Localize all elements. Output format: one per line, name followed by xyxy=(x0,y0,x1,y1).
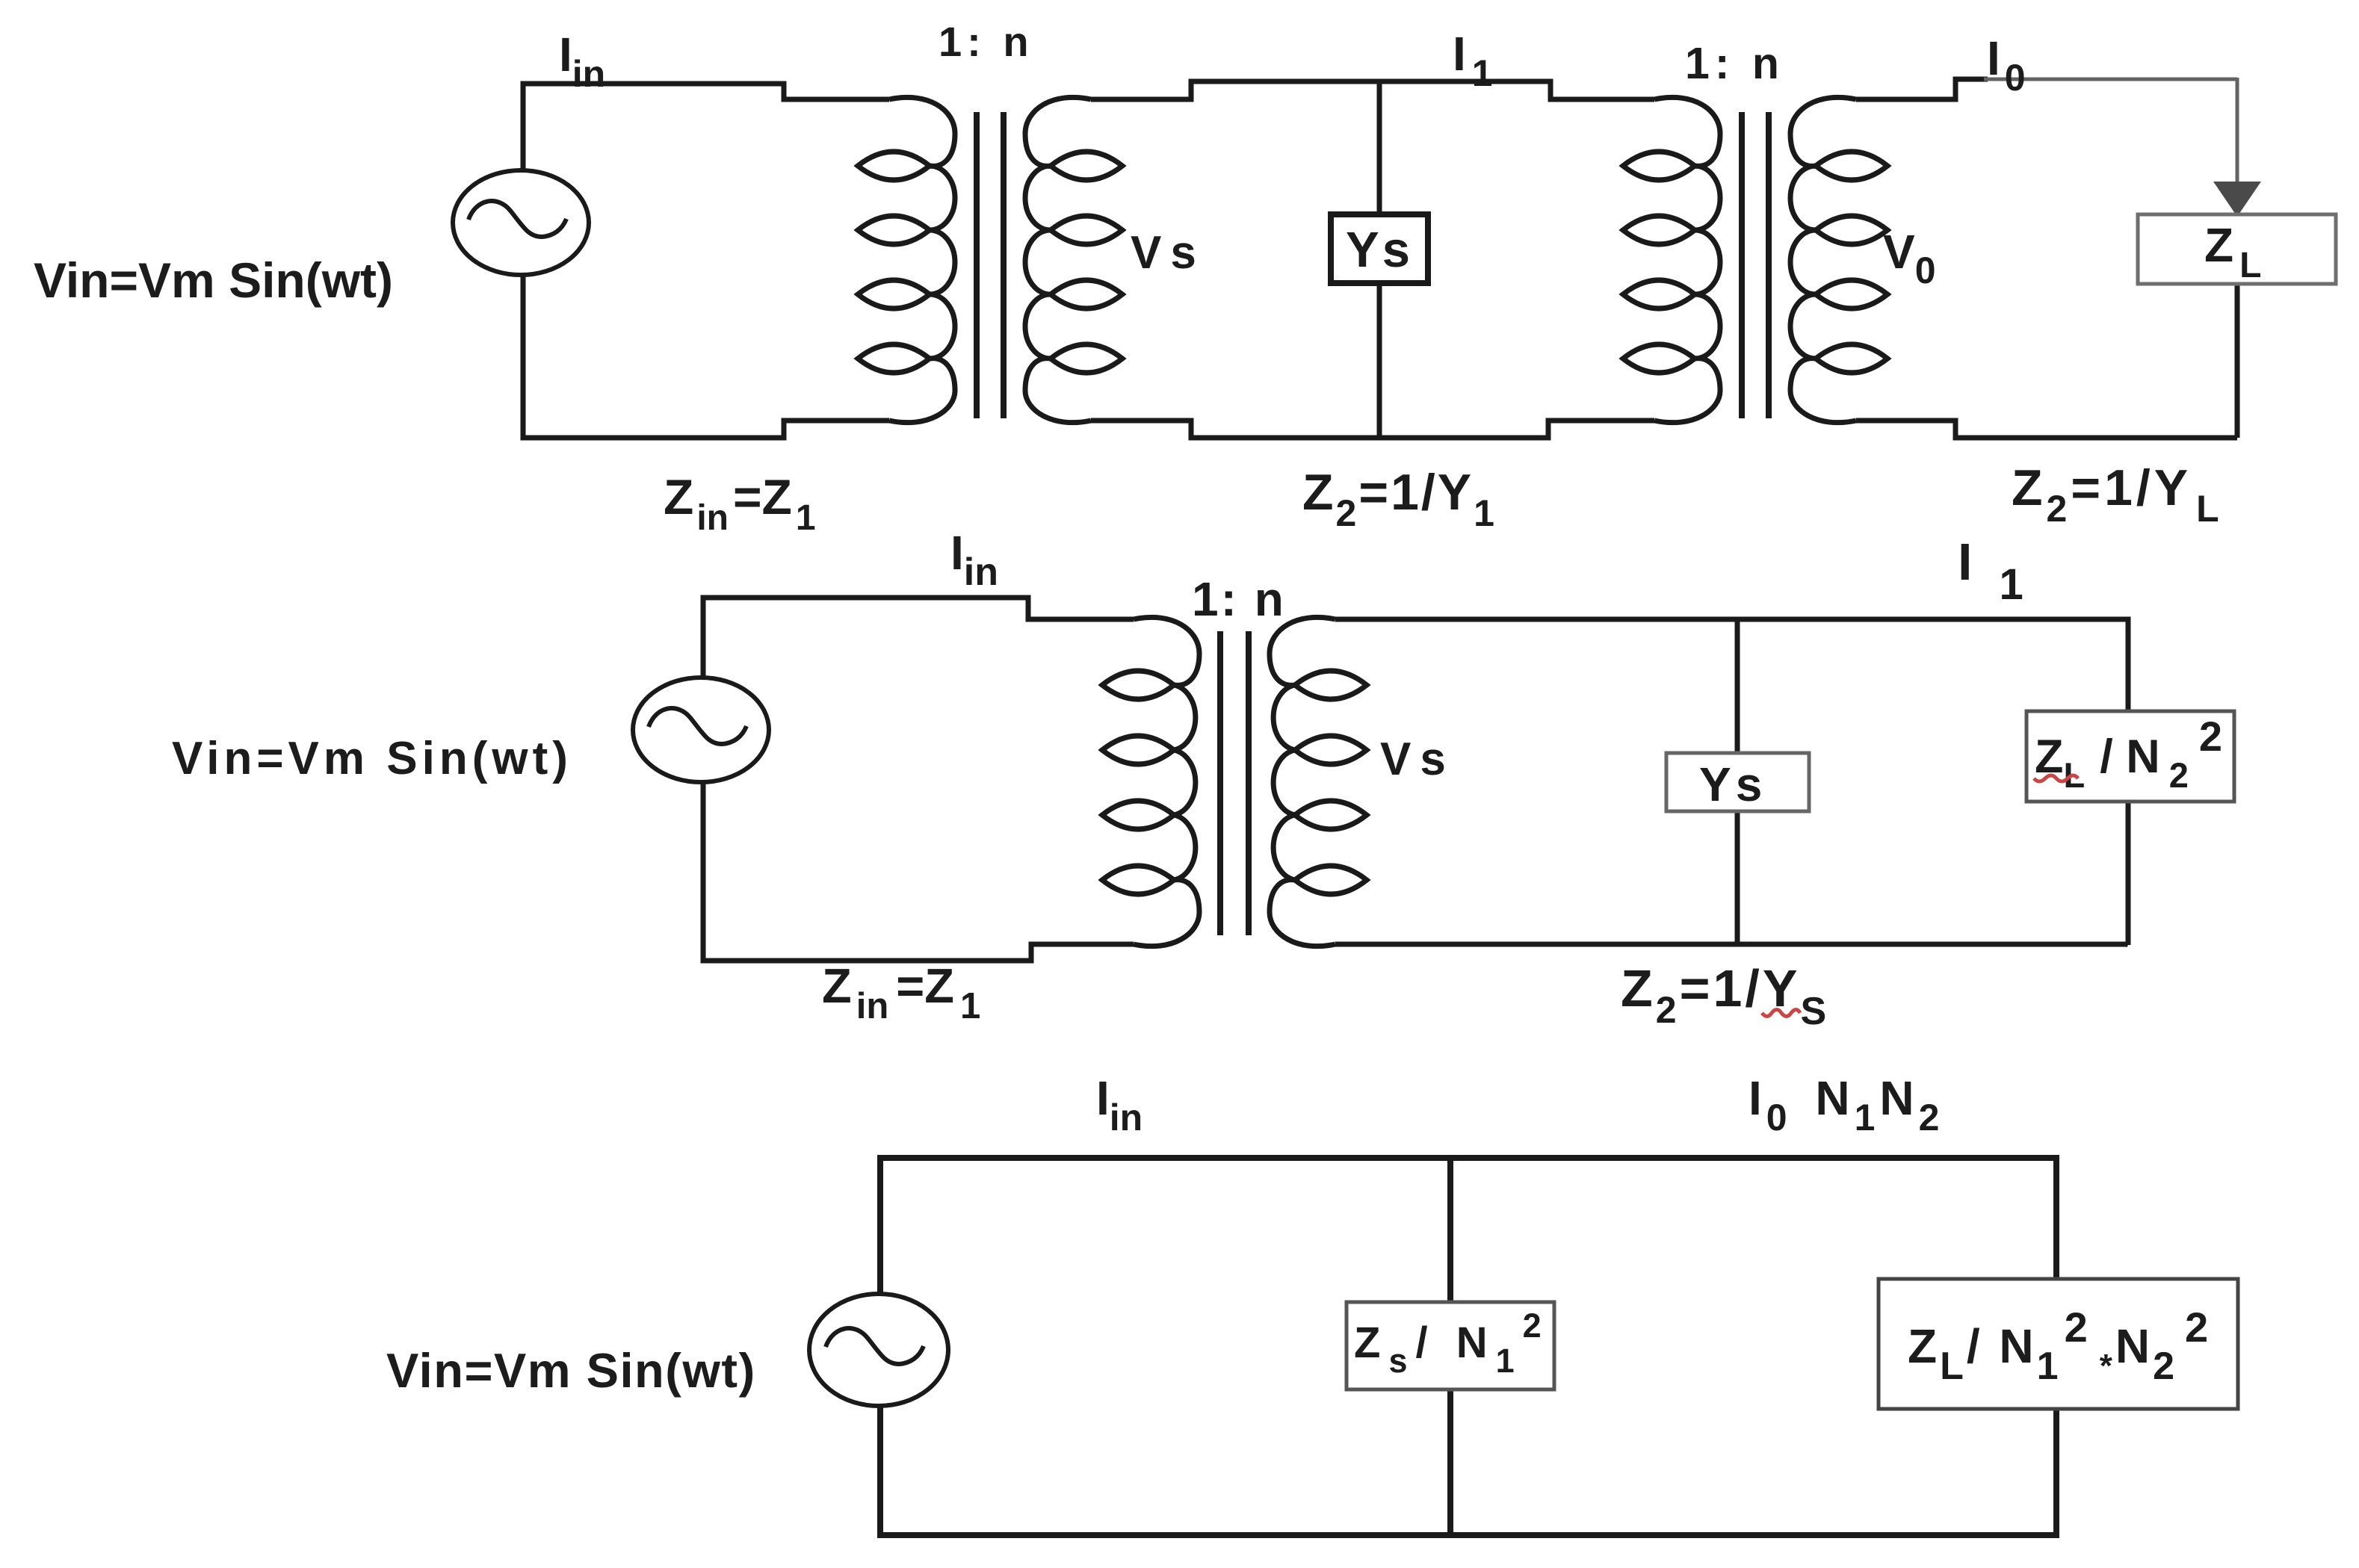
wire bottom bus right segment xyxy=(1856,421,2237,438)
transformer T2 primary winding xyxy=(1623,97,1720,422)
sine glyph xyxy=(469,201,566,237)
transformer T3 core xyxy=(1220,631,1249,935)
wire Zs branch vertical xyxy=(1447,1158,1453,1535)
transformer T2 core xyxy=(1742,112,1769,418)
svg-text:Ys: Ys xyxy=(1699,757,1766,811)
wire load bottom vertical xyxy=(2235,284,2240,438)
wire bottom bus right segment xyxy=(1335,944,2128,945)
wire Ys branch vertical xyxy=(1377,81,1382,438)
wire top bus right segment xyxy=(1856,79,1988,99)
wire right vertical to load xyxy=(2236,78,2239,187)
wire top bus right segment xyxy=(1335,619,2128,711)
transformer T1 core xyxy=(977,112,1004,418)
wire bottom bus between transformers xyxy=(1091,421,1654,438)
shunt admittance box Ys xyxy=(1331,214,1428,283)
AC source V1 xyxy=(453,170,589,275)
transformer T3 secondary winding xyxy=(1270,617,1367,946)
red squiggle under ZL xyxy=(2034,775,2078,781)
load box ZL xyxy=(2138,214,2336,284)
sine glyph xyxy=(649,708,746,744)
transformer T1 primary winding xyxy=(858,97,955,422)
AC source V2 xyxy=(633,678,769,782)
wire top bus between transformers xyxy=(1091,81,1654,99)
svg-text:1: n: 1: n xyxy=(939,18,1034,65)
svg-text:1: n: 1: n xyxy=(1685,39,1784,88)
load box ZL/N1^2*N2^2 xyxy=(1879,1279,2238,1409)
transformer T2 secondary winding xyxy=(1790,97,1887,422)
wire top bus left segment xyxy=(523,84,889,170)
arrow into load xyxy=(2213,182,2261,217)
wire top bus xyxy=(880,1158,2056,1294)
wire top bus left segment xyxy=(703,598,1134,678)
AC source V3 xyxy=(809,1294,948,1406)
svg-text:Vin=Vm Sin(wt): Vin=Vm Sin(wt) xyxy=(386,1343,756,1398)
wire top bus right gray segment xyxy=(1984,78,2237,81)
svg-text:1: n: 1: n xyxy=(1192,572,1286,626)
transformer T1 secondary winding xyxy=(1025,97,1122,422)
svg-text:Vin=Vm Sin(wt): Vin=Vm Sin(wt) xyxy=(34,252,393,308)
wire source bottom vertical xyxy=(703,782,1134,961)
sine glyph xyxy=(826,1328,924,1364)
svg-text:Vs: Vs xyxy=(1380,734,1455,785)
transformer T3 primary winding xyxy=(1102,617,1199,946)
svg-text:Vs: Vs xyxy=(1131,227,1205,279)
shunt admittance box Ys middle xyxy=(1666,753,1809,811)
wire bottom bus xyxy=(880,1406,2056,1535)
series impedance box Zs/N1^2 xyxy=(1347,1302,1554,1389)
svg-text:Vin=Vm Sin(wt): Vin=Vm Sin(wt) xyxy=(172,733,572,784)
wire right vertical lower xyxy=(2126,802,2131,945)
wire source left vertical xyxy=(523,275,889,438)
load box ZL/N2^2 xyxy=(2026,711,2234,802)
wire Ys branch vertical xyxy=(1735,619,1740,944)
red squiggle under YS xyxy=(1762,1010,1800,1017)
svg-text:Ys: Ys xyxy=(1346,222,1413,278)
